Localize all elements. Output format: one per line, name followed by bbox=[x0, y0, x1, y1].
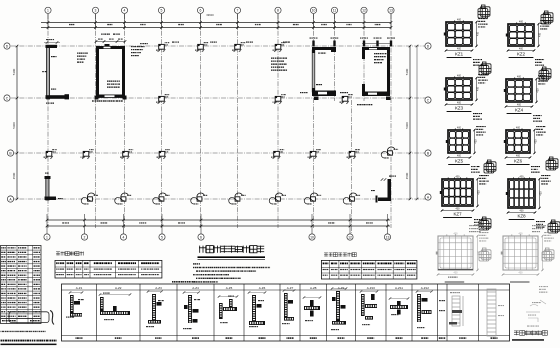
shear wall rebar table 1 bbox=[55, 260, 162, 278]
svg-text:KZ5: KZ5 bbox=[455, 159, 464, 164]
svg-text:KZ2: KZ2 bbox=[517, 52, 526, 57]
svg-text:400: 400 bbox=[457, 48, 462, 51]
dims above shaft bbox=[96, 41, 125, 43]
svg-text:400: 400 bbox=[457, 127, 462, 130]
svg-text:6: 6 bbox=[200, 235, 202, 239]
svg-text:4500: 4500 bbox=[12, 172, 16, 179]
svg-text:A-Z7: A-Z7 bbox=[287, 286, 294, 290]
svg-text:A-Z5: A-Z5 bbox=[226, 286, 233, 290]
shaft2 inner text bbox=[317, 53, 320, 54]
shear wall rebar table 1 title bbox=[56, 252, 60, 256]
svg-text:A-Z8: A-Z8 bbox=[310, 286, 317, 290]
shear wall rebar table 2 title bbox=[324, 253, 328, 257]
elevator shaft walls at grid 12-13 bbox=[362, 47, 390, 50]
pier section A-Z3 bbox=[152, 294, 156, 320]
column detail KZ4 bbox=[506, 79, 532, 102]
gray column detail KZ8a below bbox=[503, 236, 538, 270]
column detail KZ8 bbox=[508, 179, 535, 208]
stirrup detail icon for KZ5 bbox=[484, 160, 496, 173]
svg-text:13: 13 bbox=[386, 235, 390, 239]
svg-text:1: 1 bbox=[47, 9, 49, 13]
svg-text:1: 1 bbox=[46, 235, 48, 239]
grid bubbles top bbox=[45, 7, 51, 13]
shear wall W1 left C-shape at grid 1 bbox=[46, 41, 49, 44]
stirrup detail icon for KZ3 bbox=[479, 62, 491, 75]
strip tiny title above bbox=[172, 281, 173, 283]
gray label bar KZ8a bbox=[510, 281, 530, 283]
gray column detail KZ7a below bbox=[438, 236, 473, 270]
svg-text:KZ1: KZ1 bbox=[455, 52, 464, 57]
pier section A-Z5 bbox=[219, 303, 223, 319]
pier section A-Z2 bbox=[100, 297, 104, 311]
stirrup detail icon for KZ1 bbox=[478, 5, 490, 18]
column detail KZ5 bbox=[448, 130, 470, 153]
left dimension chain bbox=[16, 46, 18, 199]
elevator shaft walls at grid 10 bbox=[312, 47, 336, 50]
svg-text:4500: 4500 bbox=[405, 172, 409, 179]
column detail KZ2 bbox=[508, 24, 534, 46]
svg-text:7: 7 bbox=[237, 9, 239, 13]
svg-text:400: 400 bbox=[540, 191, 543, 196]
svg-text:400: 400 bbox=[516, 155, 521, 158]
faint column elevation cell 15 bbox=[487, 289, 496, 336]
shear wall rebar table 2 bbox=[321, 260, 417, 279]
pier section A-Z8 bbox=[304, 306, 320, 310]
svg-text:A-Z6: A-Z6 bbox=[259, 286, 266, 290]
svg-text:400: 400 bbox=[519, 272, 524, 275]
wall label text above shaft bbox=[100, 34, 103, 35]
shaft3 inner text block bbox=[373, 53, 376, 54]
svg-text:400: 400 bbox=[539, 32, 542, 37]
svg-text:400: 400 bbox=[457, 102, 462, 105]
pier section A-Z9 bbox=[336, 291, 340, 321]
pier section A-Z7 bbox=[284, 293, 288, 317]
svg-text:400: 400 bbox=[454, 272, 459, 275]
faint pier detail cell 14 bbox=[452, 296, 463, 326]
svg-text:400: 400 bbox=[519, 21, 524, 24]
pier section A-Z10 bbox=[361, 294, 365, 316]
svg-text:4: 4 bbox=[124, 9, 126, 13]
wall label text Q2 right of shaft bbox=[130, 46, 133, 47]
wall pier L-shape at grid 1 row A bbox=[46, 178, 49, 200]
svg-text:400: 400 bbox=[517, 76, 522, 79]
svg-text:12: 12 bbox=[348, 235, 352, 239]
highlight lasso on floor table rows bbox=[9, 312, 49, 323]
strip small cell content bbox=[439, 300, 441, 301]
svg-text:400: 400 bbox=[477, 31, 480, 36]
strip bottom number band bbox=[76, 337, 77, 339]
grid bubbles left bbox=[4, 43, 10, 49]
pier section A-Z12 bbox=[417, 294, 421, 322]
svg-text:A-Z1: A-Z1 bbox=[76, 286, 83, 290]
stirrup detail icon for KZ7 bbox=[479, 217, 491, 230]
svg-text:4: 4 bbox=[123, 235, 125, 239]
svg-text:KZ7: KZ7 bbox=[453, 212, 462, 217]
wall label text Q1 bbox=[76, 53, 79, 54]
svg-text:A-Z4: A-Z4 bbox=[192, 286, 199, 290]
stirrup detail icon for KZ6 bbox=[546, 157, 558, 170]
bottom right caption text bbox=[514, 331, 519, 336]
svg-text:5400: 5400 bbox=[12, 122, 16, 129]
pier section A-Z4 bbox=[188, 295, 192, 323]
svg-text:5: 5 bbox=[161, 235, 163, 239]
plan grid vertical lines bbox=[47, 14, 49, 228]
column detail KZ6 bbox=[506, 130, 530, 153]
AZ labels under C-wall flange bbox=[45, 103, 48, 104]
svg-text:A-Z9: A-Z9 bbox=[338, 286, 345, 290]
column detail KZ3 bbox=[446, 78, 472, 100]
AZ label row under shaft bottom wall bbox=[91, 100, 94, 101]
svg-text:400: 400 bbox=[475, 139, 478, 144]
svg-text:5: 5 bbox=[161, 9, 163, 13]
svg-text:5400: 5400 bbox=[405, 122, 409, 129]
svg-text:13: 13 bbox=[389, 9, 393, 13]
gray stirrup icon 1 bbox=[479, 248, 491, 261]
pier section A-Z6 bbox=[252, 295, 256, 321]
svg-text:KZ4: KZ4 bbox=[515, 108, 524, 113]
svg-text:12: 12 bbox=[362, 9, 366, 13]
svg-text:400: 400 bbox=[519, 48, 524, 51]
svg-text:400: 400 bbox=[454, 233, 459, 236]
svg-text:A-Z2: A-Z2 bbox=[115, 286, 122, 290]
svg-text:400: 400 bbox=[477, 86, 480, 91]
stirrup detail icon for KZ2 bbox=[541, 11, 553, 24]
grid bubbles right bbox=[425, 43, 431, 49]
beam label text LL1 near grid 8 bbox=[271, 58, 272, 59]
svg-text:11: 11 bbox=[333, 9, 337, 13]
svg-text:KZ8: KZ8 bbox=[517, 214, 526, 219]
wall pier detail strip frame bbox=[62, 284, 510, 341]
plan grid horizontal lines bbox=[11, 45, 426, 47]
svg-text:400: 400 bbox=[535, 139, 538, 144]
svg-text:10: 10 bbox=[310, 235, 314, 239]
svg-text:400: 400 bbox=[519, 233, 524, 236]
wall pier L-corner at grid 13 row A bbox=[388, 179, 392, 199]
wall-top column nubs on row D right side bbox=[312, 41, 314, 47]
row D columns bbox=[159, 44, 165, 49]
svg-text:400: 400 bbox=[517, 104, 522, 107]
row C columns bbox=[159, 96, 165, 101]
svg-text:6: 6 bbox=[200, 9, 202, 13]
svg-text:400: 400 bbox=[457, 155, 462, 158]
svg-text:400: 400 bbox=[456, 176, 461, 179]
svg-text:KZ3: KZ3 bbox=[455, 106, 464, 111]
floor level table bbox=[1, 246, 42, 324]
svg-text:A-Z3: A-Z3 bbox=[155, 286, 162, 290]
svg-text:A-Z11: A-Z11 bbox=[395, 286, 403, 290]
pier section A-Z1 bbox=[70, 295, 74, 313]
stirrup detail icon for KZ4 bbox=[539, 67, 551, 80]
row B hook column at grid 13 bbox=[388, 151, 393, 155]
svg-text:10: 10 bbox=[312, 9, 316, 13]
stirrup detail icon for KZ8 bbox=[548, 220, 560, 233]
svg-text:5100: 5100 bbox=[405, 68, 409, 75]
svg-text:400: 400 bbox=[457, 19, 462, 22]
note line under floor table bbox=[0, 331, 2, 332]
svg-text:8: 8 bbox=[277, 9, 279, 13]
shaft interior text bbox=[107, 81, 108, 82]
grid bubbles bottom bbox=[44, 234, 50, 240]
column detail KZ1 bbox=[446, 22, 472, 46]
bottom dimension lines bbox=[47, 219, 390, 221]
gray text above details bbox=[468, 225, 471, 226]
stair shaft walls at grid 3-4 bbox=[96, 46, 125, 49]
row A columns with hooks bbox=[88, 197, 93, 201]
bold caption under floor table bbox=[1, 340, 3, 342]
svg-text:400: 400 bbox=[478, 190, 481, 195]
gray label bar KZ7a bbox=[445, 281, 465, 283]
svg-text:3: 3 bbox=[95, 9, 97, 13]
faint rebar splice sketch right bbox=[526, 300, 546, 322]
svg-text:400: 400 bbox=[457, 75, 462, 78]
svg-text:A-Z10: A-Z10 bbox=[367, 286, 376, 290]
row B columns bbox=[46, 151, 52, 156]
svg-text:400: 400 bbox=[516, 127, 521, 130]
svg-text:400: 400 bbox=[456, 208, 461, 211]
pier section A-Z11 bbox=[390, 305, 408, 309]
gray stirrup icon 2 bbox=[542, 248, 554, 261]
svg-text:KZ6: KZ6 bbox=[514, 159, 523, 164]
svg-text:5100: 5100 bbox=[12, 68, 16, 75]
svg-text:400: 400 bbox=[520, 176, 525, 179]
svg-text:2: 2 bbox=[84, 235, 86, 239]
row C wall corner blobs bbox=[95, 96, 99, 100]
svg-text:400: 400 bbox=[520, 210, 525, 213]
svg-text:A-Z12: A-Z12 bbox=[421, 286, 430, 290]
drawing title: first floor wall column plan bbox=[199, 246, 206, 253]
notes text block bbox=[193, 263, 194, 264]
top dimension lines bbox=[41, 22, 391, 24]
misc plan annotation blobs bbox=[139, 43, 142, 44]
right dimension chain bbox=[409, 46, 411, 199]
svg-text:39600: 39600 bbox=[206, 13, 214, 17]
column detail KZ7 bbox=[442, 179, 473, 206]
svg-text:400: 400 bbox=[537, 88, 540, 93]
